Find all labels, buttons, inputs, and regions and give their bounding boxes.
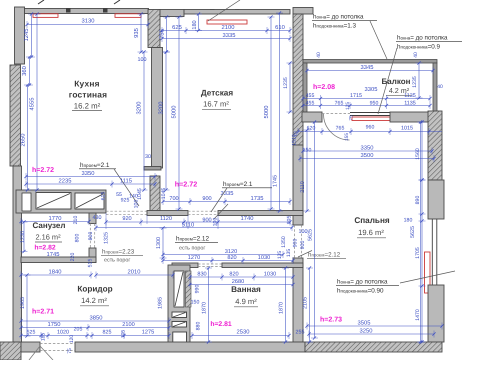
svg-text:2530: 2530 (237, 329, 250, 336)
dim 625 2100 610 nursery top (162, 30, 290, 32)
svg-text:1470: 1470 (415, 309, 421, 321)
svg-text:75: 75 (349, 115, 355, 121)
dim 2680 (190, 284, 293, 286)
svg-text:hпроем=2.1: hпроем=2.1 (80, 162, 110, 169)
balcony bottom wall right block (390, 112, 430, 122)
dim 5625 left (314, 122, 316, 338)
svg-text:830: 830 (197, 272, 206, 278)
entrance door swing lines (29, 346, 40, 360)
svg-text:Ванная: Ванная (231, 285, 261, 294)
leader nursery door (211, 188, 227, 212)
svg-text:40: 40 (316, 52, 322, 58)
lintel over nursery doorway (160, 10, 184, 17)
svg-text:1245: 1245 (23, 29, 30, 42)
bedroom right wall upper (428, 180, 444, 219)
svg-text:hпроем=2.12: hпроем=2.12 (308, 252, 341, 259)
bathroom top wall left (172, 263, 198, 268)
svg-text:3335: 3335 (223, 32, 236, 39)
svg-text:1115: 1115 (120, 179, 132, 185)
wc right wall lower corner (89, 248, 96, 263)
bottom wall left of entrance (21, 342, 40, 352)
svg-text:30: 30 (145, 154, 151, 160)
dim 2650 (27, 85, 29, 190)
dim bathroom inner top 830 820 1030 (190, 276, 293, 278)
bedroom right wall hatched (428, 111, 442, 180)
svg-text:1020: 1020 (57, 330, 69, 336)
svg-text:1300: 1300 (156, 237, 162, 249)
svg-text:hпроем=2.23: hпроем=2.23 (102, 249, 135, 256)
shaft duct small 2 (172, 322, 187, 328)
svg-text:950: 950 (370, 101, 379, 107)
svg-text:825: 825 (103, 330, 112, 336)
balcony window lines (350, 112, 390, 114)
svg-text:1030: 1030 (264, 272, 276, 278)
svg-text:2105: 2105 (303, 297, 309, 309)
dim 5625 right (420, 122, 422, 342)
svg-text:205: 205 (74, 327, 83, 333)
svg-text:5625: 5625 (308, 229, 314, 241)
dim 2530 (192, 335, 289, 337)
svg-text:990: 990 (195, 285, 201, 294)
svg-text:Санузел: Санузел (33, 221, 66, 230)
svg-text:205: 205 (287, 216, 293, 225)
bathroom top wall right (222, 263, 303, 268)
svg-text:1325: 1325 (104, 232, 110, 244)
svg-text:890: 890 (415, 196, 421, 205)
svg-text:16.7 m²: 16.7 m² (203, 100, 229, 109)
dim 3505 3250 bedroom bottom (307, 325, 442, 327)
nursery/bedroom wall hatched (293, 14, 303, 145)
svg-text:3350: 3350 (361, 145, 374, 152)
dim 2105 bedroom left (309, 268, 311, 342)
svg-text:1715: 1715 (350, 93, 362, 99)
window radiator kitchen right (115, 14, 141, 18)
svg-text:900: 900 (293, 239, 299, 248)
svg-text:1770: 1770 (49, 215, 62, 222)
svg-text:3130: 3130 (82, 18, 95, 25)
nursery door dashed opening (188, 210, 218, 212)
svg-text:Детская: Детская (201, 89, 233, 98)
bottom wall hatched corner left (0, 342, 21, 360)
svg-text:h=2.81: h=2.81 (210, 321, 232, 328)
svg-text:1735: 1735 (251, 195, 264, 202)
svg-text:525: 525 (27, 330, 36, 336)
svg-text:hпроем=2.12: hпроем=2.12 (176, 236, 209, 243)
svg-text:3335: 3335 (221, 190, 234, 197)
dim 756 (166, 17, 168, 52)
wall tick marks (66, 8, 71, 13)
svg-text:1965: 1965 (20, 297, 26, 309)
dim 1235 balcony left (289, 63, 291, 112)
svg-text:1270: 1270 (188, 255, 200, 261)
dim 3350 kitchen bottom (26, 176, 155, 178)
svg-text:есть порог: есть порог (179, 246, 205, 252)
dim bathroom top chain 3120 (163, 254, 283, 256)
dim 5110 (96, 227, 292, 229)
dim balcony bottom 620 765 960 1015 (298, 131, 442, 133)
svg-text:455: 455 (306, 93, 315, 99)
exterior wall left lower (13, 166, 22, 342)
svg-text:14.2 m²: 14.2 m² (81, 296, 107, 305)
svg-text:100: 100 (213, 218, 219, 227)
svg-text:Коридор: Коридор (77, 285, 112, 294)
dim 3335 nursery (162, 38, 290, 40)
svg-text:40: 40 (437, 84, 443, 90)
svg-text:135: 135 (286, 249, 292, 258)
leader doorway 2.1 (114, 169, 139, 206)
cut-off tick marks at top edge (38, 0, 44, 4)
svg-text:210: 210 (73, 216, 79, 225)
svg-text:Балкон: Балкон (382, 77, 411, 86)
svg-text:125: 125 (345, 102, 351, 110)
svg-text:1045: 1045 (161, 188, 167, 200)
dim 1235 balcony right (418, 63, 420, 98)
svg-text:615: 615 (101, 192, 107, 201)
vent duct with diagonal (36, 193, 71, 210)
dim balcony chain1 455 1715 1135 (303, 98, 430, 100)
svg-text:155: 155 (344, 133, 350, 141)
svg-text:1560: 1560 (415, 148, 421, 160)
exterior wall left top (15, 7, 25, 64)
svg-text:3350: 3350 (82, 170, 95, 177)
vent duct plain (22, 193, 31, 211)
svg-text:925: 925 (121, 198, 130, 204)
svg-text:2680: 2680 (232, 279, 244, 285)
svg-text:hпроем=2.1: hпроем=2.1 (223, 181, 253, 188)
svg-text:900: 900 (202, 218, 211, 224)
svg-text:5000: 5000 (171, 106, 178, 119)
dim 360 (29, 57, 31, 85)
svg-text:765: 765 (335, 101, 344, 107)
svg-text:1870: 1870 (279, 302, 285, 314)
dim 1270 820 1030 (163, 260, 293, 262)
svg-text:1135: 1135 (404, 93, 416, 99)
bottom wall hatched right (305, 342, 442, 352)
balcony window radiator (352, 117, 390, 121)
svg-text:610: 610 (275, 24, 285, 31)
dim 1245 (31, 14, 33, 57)
svg-text:620: 620 (307, 126, 316, 132)
svg-text:3850: 3850 (90, 315, 103, 322)
svg-text:3305: 3305 (365, 86, 378, 93)
svg-text:5110: 5110 (182, 222, 194, 229)
dim 2235 1115 (26, 183, 155, 185)
svg-text:880: 880 (196, 322, 202, 331)
svg-text:220: 220 (70, 253, 76, 262)
svg-text:455: 455 (306, 101, 315, 107)
svg-text:105: 105 (121, 330, 127, 339)
wc door dashed (89, 224, 91, 249)
shaft hatch strip (186, 271, 192, 307)
dim balcony chain2 455 765 950 1135 (303, 105, 430, 107)
window radiator nursery (207, 20, 247, 24)
balcony bottom wall left block (302, 112, 322, 122)
svg-text:1015: 1015 (401, 126, 413, 132)
dim 890 180 1705 1470 right chain (421, 180, 423, 342)
balcony door dashed opening (322, 113, 350, 115)
wall between kitchen and nursery (152, 48, 163, 169)
svg-text:4555: 4555 (30, 98, 36, 111)
svg-text:16.2 m²: 16.2 m² (74, 102, 101, 111)
leader window block 1 (370, 21, 387, 59)
svg-text:3250: 3250 (360, 328, 373, 335)
svg-text:1235: 1235 (283, 77, 289, 89)
svg-text:700: 700 (169, 196, 178, 202)
dim 5000 nursery left (178, 17, 180, 209)
exterior wall left hatched (10, 65, 21, 166)
svg-text:1870: 1870 (202, 302, 208, 314)
svg-text:3345: 3345 (361, 64, 374, 71)
svg-text:625: 625 (172, 24, 182, 31)
svg-text:900: 900 (202, 196, 211, 202)
leader window block 2 (378, 48, 397, 114)
svg-text:2650: 2650 (20, 134, 27, 147)
svg-text:19.6 m²: 19.6 m² (358, 228, 384, 237)
svg-text:2100: 2100 (122, 322, 134, 328)
svg-text:Спальня: Спальня (354, 216, 390, 225)
svg-text:3200: 3200 (158, 102, 165, 115)
svg-text:180: 180 (192, 20, 198, 29)
window radiator kitchen left (33, 14, 58, 18)
nursery/bedroom wall lower (293, 145, 303, 225)
svg-text:hподоконника=0.90: hподоконника=0.90 (337, 288, 384, 295)
bottom wall main (75, 342, 305, 352)
nursery right wall top block (293, 8, 313, 15)
corridor top wall dashed kitchen opening (106, 210, 147, 212)
svg-text:1235: 1235 (412, 76, 418, 88)
svg-text:h=2.71: h=2.71 (32, 308, 54, 316)
svg-text:935: 935 (133, 28, 140, 38)
dim 2010 (96, 274, 173, 276)
svg-text:есть порог: есть порог (104, 258, 130, 264)
svg-text:40: 40 (413, 52, 419, 58)
extension lines nursery door (187, 215, 189, 229)
svg-text:10: 10 (293, 131, 299, 137)
svg-text:150: 150 (191, 300, 200, 306)
dim 1560 (421, 122, 423, 180)
svg-text:820: 820 (227, 255, 236, 261)
corridor top wall right of nursery door (218, 211, 303, 216)
svg-text:1705: 1705 (415, 247, 421, 259)
svg-text:гостиная: гостиная (69, 90, 108, 100)
svg-text:h=2.73: h=2.73 (320, 316, 342, 324)
svg-text:135: 135 (277, 251, 283, 260)
svg-text:360: 360 (21, 66, 28, 76)
svg-text:1135: 1135 (404, 101, 416, 107)
dim 1750 2100 (21, 327, 169, 329)
svg-text:hподоконника=0.9: hподоконника=0.9 (397, 44, 441, 51)
shaft duct small 1 (172, 312, 187, 318)
dim 2110 (306, 130, 308, 211)
dim 1770 (21, 221, 89, 223)
leader window block 3 (400, 271, 455, 283)
svg-text:2010: 2010 (128, 269, 141, 276)
svg-text:3505: 3505 (358, 320, 371, 327)
balcony glazing right (433, 63, 437, 112)
dim 4555 (36, 14, 38, 190)
svg-text:180: 180 (404, 218, 413, 224)
svg-text:3200: 3200 (136, 102, 143, 115)
svg-text:3500: 3500 (361, 152, 374, 159)
svg-text:430: 430 (93, 215, 102, 221)
svg-text:1045: 1045 (137, 188, 143, 200)
svg-text:800: 800 (75, 234, 81, 243)
svg-text:920: 920 (122, 216, 131, 222)
svg-text:h=2.08: h=2.08 (313, 83, 335, 91)
svg-text:2235: 2235 (59, 178, 72, 185)
wc right wall upper stub (89, 213, 96, 224)
balcony glazing top (303, 60, 437, 64)
exterior wall top (kitchen) (25, 9, 149, 14)
svg-text:1030: 1030 (258, 255, 270, 261)
dim 1965 (26, 275, 28, 336)
balcony door swing arc (324, 114, 350, 140)
dim 180 nursery (198, 14, 200, 31)
dim corridor top chain 700 900 1735 (163, 201, 290, 203)
svg-text:1350: 1350 (281, 236, 287, 248)
svg-text:2.16 m²: 2.16 m² (35, 233, 61, 242)
svg-text:100: 100 (134, 200, 140, 209)
svg-text:1840: 1840 (49, 269, 62, 276)
svg-text:185: 185 (41, 333, 47, 342)
svg-text:1230: 1230 (20, 231, 26, 243)
exterior wall top (nursery) (184, 10, 290, 15)
pier between kitchen and nursery hatched (148, 10, 160, 48)
bathroom door dashed (198, 263, 222, 265)
svg-text:4.9 m²: 4.9 m² (235, 297, 257, 306)
svg-text:h=2.72: h=2.72 (32, 166, 54, 174)
pier at kitchen doorway hatched (150, 176, 160, 211)
wc bottom wall (21, 257, 96, 263)
dim 3350 3500 bedroom top (303, 150, 432, 152)
dim 3130 kitchen top (27, 24, 148, 26)
svg-text:515: 515 (88, 259, 94, 268)
dim 3200 nursery (165, 52, 167, 190)
svg-text:1740: 1740 (241, 215, 254, 222)
dim 5000 nursery right (270, 17, 272, 209)
shaft column bathroom left (168, 265, 190, 345)
bedroom right wall lower (428, 285, 444, 342)
bedroom wall below door opening (293, 258, 303, 342)
dim 3850 (21, 320, 169, 322)
svg-text:1745: 1745 (273, 175, 279, 187)
svg-text:120: 120 (69, 335, 75, 344)
svg-text:820: 820 (229, 272, 238, 278)
wc vertical dims (23, 222, 25, 252)
dim 1300 (162, 228, 164, 258)
svg-text:765: 765 (336, 126, 345, 132)
svg-text:Кухня: Кухня (74, 79, 99, 89)
corridor top wall left of nursery door (147, 211, 188, 216)
wall cap at kitchen doorway (144, 167, 161, 171)
svg-text:5000: 5000 (263, 106, 270, 119)
dim 935 (140, 14, 142, 52)
dim 1840 (21, 274, 91, 276)
svg-text:100: 100 (138, 57, 147, 63)
entrance door dashed (40, 343, 75, 345)
svg-text:1750: 1750 (48, 321, 61, 328)
svg-text:2110: 2110 (300, 181, 306, 193)
bedroom window radiator (425, 252, 431, 293)
svg-text:1745: 1745 (47, 252, 60, 258)
dim 3200 kitchen (143, 52, 145, 190)
svg-text:800: 800 (88, 232, 94, 241)
svg-text:1120: 1120 (160, 216, 172, 222)
svg-text:255: 255 (296, 330, 305, 336)
svg-text:h=2.72: h=2.72 (175, 180, 198, 189)
leader nursery window (208, 0, 240, 21)
dim 3345 (307, 70, 433, 72)
balcony glazing left (303, 63, 307, 112)
svg-text:hокна= до потолка: hокна= до потолка (397, 35, 448, 42)
svg-text:hокна= до потолка: hокна= до потолка (337, 279, 388, 286)
svg-text:1275: 1275 (142, 330, 154, 336)
shaft niche plain (173, 332, 187, 345)
vent block band kitchen/wc (16, 190, 106, 213)
shaft duct tall with diagonal (174, 271, 184, 307)
svg-text:900: 900 (300, 241, 306, 250)
dim 5145 nursery right2 (279, 13, 281, 211)
bedroom window lines (431, 219, 433, 285)
svg-text:75: 75 (67, 348, 73, 354)
svg-text:1985: 1985 (158, 297, 164, 309)
dim corridor bottom chain (21, 335, 169, 337)
svg-text:h=2.82: h=2.82 (34, 245, 56, 252)
svg-text:hокна= до потолка: hокна= до потолка (313, 14, 364, 21)
vent duct with diagonal 2 (75, 193, 104, 209)
bedroom door dashed opening (294, 225, 296, 258)
svg-text:960: 960 (366, 125, 375, 131)
svg-text:hподоконника=1.3: hподоконника=1.3 (313, 23, 357, 30)
svg-text:5625: 5625 (410, 226, 416, 238)
dim corridor chain 920 1120 900 1740 (106, 221, 290, 223)
bedroom door leader diagonal (298, 251, 312, 258)
svg-text:100: 100 (299, 229, 308, 235)
svg-text:2100: 2100 (222, 24, 235, 31)
